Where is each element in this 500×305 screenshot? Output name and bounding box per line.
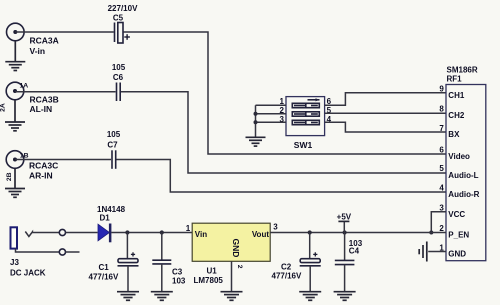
wire sleeve stub [66, 251, 80, 253]
svg-text:2: 2 [236, 265, 243, 269]
connector J3 DC JACK [11, 227, 18, 248]
svg-text:2: 2 [439, 224, 444, 233]
ground (U1) [221, 292, 243, 301]
wire diode to Vin [111, 232, 192, 234]
label RCA3B / AL-IN [30, 95, 59, 115]
svg-text:D1: D1 [100, 214, 111, 223]
svg-text:RCA3C: RCA3C [29, 161, 58, 171]
svg-text:RF1: RF1 [447, 75, 463, 84]
node junction C2 [308, 230, 312, 234]
svg-text:CH2: CH2 [448, 111, 465, 120]
connector RCA3C (AR-IN) [6, 151, 24, 169]
svg-text:105: 105 [107, 130, 121, 139]
svg-text:2B: 2B [6, 172, 13, 181]
wire VCC branch [429, 212, 446, 235]
svg-text:2A: 2A [0, 103, 7, 112]
label C1 / 477/16V [89, 263, 119, 281]
node junction C1 [125, 230, 129, 234]
wire SW1 left bus [254, 105, 287, 137]
capacitor C5 227/10V (polarized) [108, 4, 138, 43]
label C3 / 103 [172, 267, 186, 285]
svg-text:7: 7 [439, 124, 444, 133]
capacitor C1 477/16V (polarized) [118, 233, 139, 292]
wire jack sleeve [16, 249, 60, 252]
ground (RF1 GND, rotated) [419, 242, 427, 262]
svg-text:GND: GND [448, 250, 466, 259]
pin 2 P_EN [439, 224, 469, 240]
svg-text:3: 3 [273, 223, 278, 232]
node junction C3 [160, 230, 164, 234]
svg-text:P_EN: P_EN [448, 231, 469, 240]
wire C6 to Audio-L pin (node Audio-L) [121, 92, 446, 173]
capacitor C6 105 [112, 63, 126, 101]
svg-text:Audio-L: Audio-L [448, 171, 478, 180]
svg-text:VCC: VCC [448, 210, 465, 219]
svg-text:J3: J3 [10, 258, 19, 267]
svg-text:C4: C4 [349, 247, 360, 256]
svg-text:Vout: Vout [252, 230, 270, 239]
svg-text:1: 1 [186, 224, 191, 233]
wire SW1 pin5 to CH2 [325, 112, 446, 114]
ground (C1) [117, 292, 139, 301]
jack contact circle (tip) [59, 229, 65, 235]
svg-text:RCA3B: RCA3B [30, 95, 59, 105]
svg-text:BX: BX [448, 130, 460, 139]
svg-text:C6: C6 [113, 73, 124, 82]
svg-text:C3: C3 [172, 267, 183, 276]
svg-text:C1: C1 [99, 263, 110, 272]
svg-text:Audio-R: Audio-R [448, 190, 479, 199]
svg-text:6: 6 [439, 145, 444, 154]
wire U1 GND to ground [231, 261, 233, 291]
svg-text:DC JACK: DC JACK [10, 268, 46, 277]
wire GND pin stub [428, 251, 446, 253]
svg-text:SW1: SW1 [294, 140, 313, 150]
pin 8 CH2 [439, 104, 465, 119]
label RCA3A / V-in [30, 36, 59, 57]
wire RCA3A to C5 [15, 31, 114, 33]
svg-text:+5V: +5V [337, 213, 352, 222]
svg-text:5: 5 [439, 164, 444, 173]
svg-text:1B: 1B [20, 153, 29, 160]
ground (RCA3C shield) [5, 168, 25, 197]
wire SW1 pin6 to CH1 [325, 93, 446, 106]
svg-text:SM186R: SM186R [447, 66, 478, 75]
svg-text:1A: 1A [20, 83, 29, 90]
svg-text:RCA3A: RCA3A [30, 36, 59, 46]
wire jack switch contact [25, 232, 59, 237]
pin 9 CH1 [439, 85, 465, 100]
wire RCA3B to C6 [15, 91, 116, 93]
label C2 / 477/16V [272, 262, 302, 280]
pin 7 BX [439, 124, 460, 139]
ground (C3) [151, 292, 173, 301]
svg-text:Vin: Vin [195, 230, 207, 239]
pin 3 VCC [439, 203, 465, 219]
diode D1 1N4148 [97, 205, 126, 242]
svg-text:C5: C5 [113, 14, 124, 23]
wire circle to diode [66, 232, 98, 234]
label RCA3C / AR-IN [29, 161, 58, 181]
ground (C4) [334, 292, 356, 301]
ground (C2) [299, 292, 321, 301]
svg-text:103: 103 [172, 277, 186, 286]
svg-text:C2: C2 [281, 262, 292, 271]
svg-text:105: 105 [112, 63, 126, 72]
label SM186R / RF1 [447, 66, 478, 84]
svg-text:477/16V: 477/16V [89, 272, 119, 281]
svg-text:Video: Video [448, 152, 470, 161]
connector RCA3B (AL-IN) [6, 82, 24, 100]
capacitor C3 103 [152, 233, 171, 292]
svg-text:AR-IN: AR-IN [29, 171, 53, 181]
svg-text:477/16V: 477/16V [272, 272, 302, 281]
capacitor C4 103 [335, 233, 355, 292]
label J3 / DC JACK [10, 258, 46, 277]
svg-text:GND: GND [231, 239, 241, 258]
pin 1 GND [439, 243, 466, 258]
capacitor C2 477/16V (polarized) [300, 233, 321, 292]
ground (RCA3A shield) [5, 41, 25, 71]
wire RCA3C to C7 [15, 159, 111, 161]
regulator U1 LM7805 [192, 223, 270, 261]
svg-text:CH1: CH1 [448, 91, 465, 100]
connector RCA3A (V-in) [7, 23, 25, 41]
switch SW1 (3x DIP) [286, 97, 325, 136]
wire C7 to Audio-R pin (node Audio-R) [117, 160, 447, 193]
svg-text:9: 9 [439, 85, 444, 94]
svg-text:V-in: V-in [30, 46, 46, 56]
svg-text:227/10V: 227/10V [108, 4, 138, 13]
ground (SW1 common) [246, 137, 266, 146]
power +5V [337, 213, 352, 233]
wire C5 to Video pin (node Video) [123, 32, 446, 154]
wire Vout rail to P_EN [270, 232, 446, 234]
svg-text:3: 3 [439, 203, 444, 212]
pin 6 Video [439, 145, 470, 161]
svg-text:C7: C7 [107, 141, 118, 150]
label U1 / LM7805 [194, 267, 224, 286]
connector RF1 SM186R [446, 85, 486, 261]
svg-text:U1: U1 [207, 267, 218, 276]
node junction +5V/C4 [343, 230, 347, 234]
capacitor C7 105 [107, 130, 121, 169]
label 103 / C4 [349, 239, 363, 256]
pin 4 Audio-R [439, 183, 479, 199]
pin 5 Audio-L [439, 164, 478, 180]
svg-text:LM7805: LM7805 [194, 276, 224, 285]
jack contact circle (sleeve) [59, 249, 65, 255]
svg-text:AL-IN: AL-IN [30, 104, 53, 114]
svg-text:8: 8 [439, 104, 444, 113]
svg-text:4: 4 [439, 183, 444, 192]
wire SW1 pin4 to BX [325, 122, 446, 132]
ground (RCA3B shield) [5, 100, 25, 131]
